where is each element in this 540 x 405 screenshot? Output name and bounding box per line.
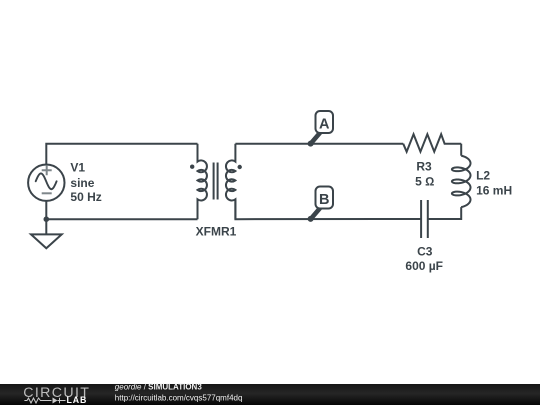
wire: V1 bottom to ground junction — [45, 201, 47, 235]
wire: ground junction to XFMR1 primary bottom — [46, 218, 197, 220]
label V1 sine 50 Hz — [70, 161, 101, 205]
inductor L2 — [452, 156, 471, 207]
XFMR1 phase dot secondary — [238, 165, 242, 169]
wire: R3 to L2 top — [460, 144, 462, 156]
label C3 600 uF — [405, 245, 443, 274]
transformer XFMR1 primary winding — [198, 144, 207, 220]
svg-text:5 Ω: 5 Ω — [415, 175, 434, 189]
resistor R3 — [403, 134, 461, 152]
svg-text:50 Hz: 50 Hz — [70, 190, 101, 204]
wire: C3 left plate to XFMR1 secondary bottom — [235, 200, 421, 220]
XFMR1 phase dot primary — [190, 165, 194, 169]
svg-text:A: A — [319, 116, 330, 132]
footer bar — [0, 384, 540, 405]
svg-text:http://circuitlab.com/cvqs577q: http://circuitlab.com/cvqs577qmf4dq — [115, 394, 243, 403]
wire: XFMR1 secondary top to R3 — [235, 143, 403, 145]
ground — [31, 234, 62, 248]
svg-text:sine: sine — [70, 176, 94, 190]
svg-text:XFMR1: XFMR1 — [196, 224, 237, 238]
transformer XFMR1 secondary winding — [226, 144, 235, 220]
svg-text:B: B — [319, 192, 329, 208]
voltage source V1 — [28, 165, 64, 201]
svg-text:LAB: LAB — [67, 395, 88, 405]
svg-text:V1: V1 — [70, 161, 85, 175]
transformer XFMR1 core — [214, 163, 218, 200]
svg-text:C3: C3 — [417, 245, 433, 259]
junction dot at ground node — [44, 216, 50, 222]
CircuitLab logo — [23, 385, 90, 405]
svg-text:R3: R3 — [416, 159, 432, 173]
label L2 16 mH — [476, 168, 512, 197]
node B — [308, 187, 333, 222]
wire: V1 top to XFMR1 primary top — [46, 144, 197, 165]
wire: L2 bottom to C3 right plate — [428, 207, 461, 219]
svg-text:geordie / SIMULATION3: geordie / SIMULATION3 — [115, 383, 203, 392]
svg-text:16 mH: 16 mH — [476, 183, 512, 197]
node A — [308, 111, 333, 147]
svg-text:L2: L2 — [476, 168, 490, 182]
label R3 5 ohm — [415, 159, 434, 188]
svg-text:600 µF: 600 µF — [405, 259, 443, 273]
capacitor C3 — [421, 200, 428, 238]
